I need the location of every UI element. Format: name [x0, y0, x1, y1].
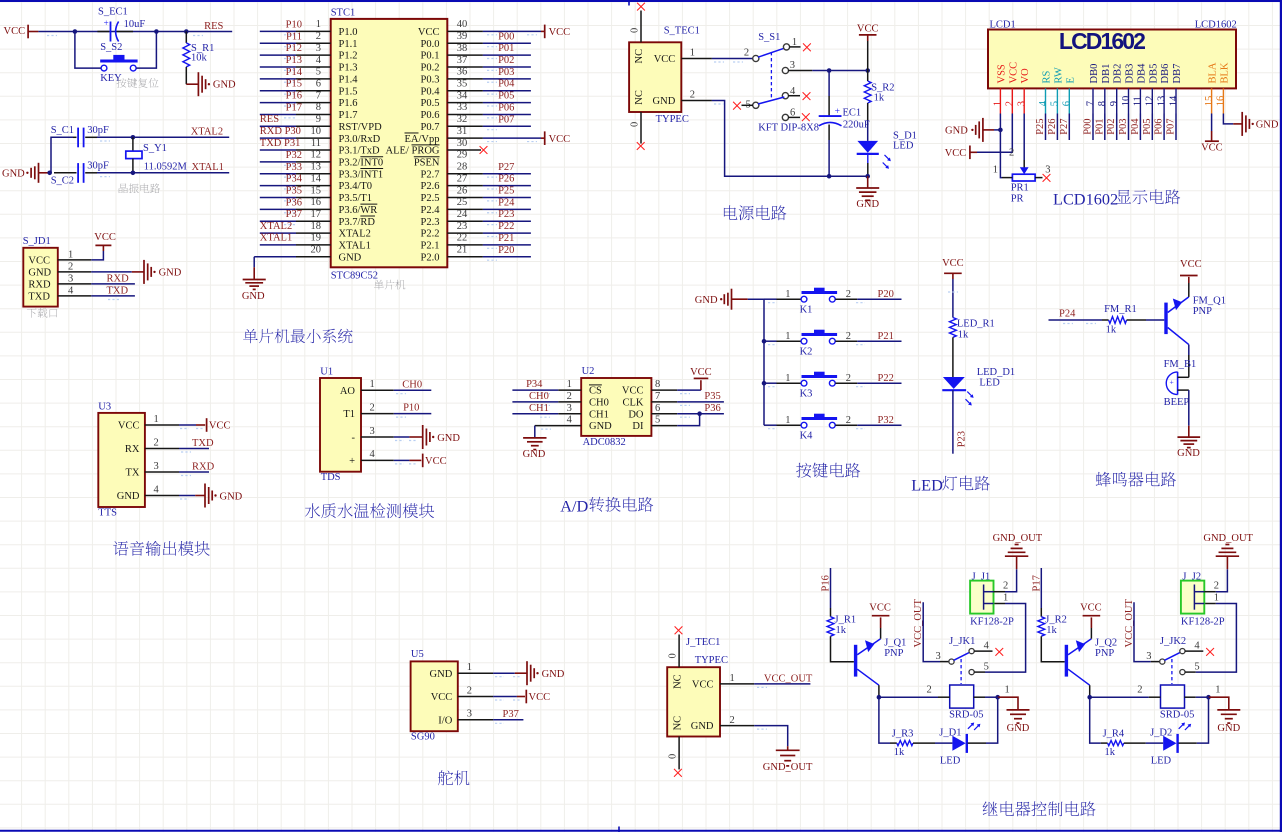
net label P34 (STC1 pin 14)	[284, 174, 303, 189]
earth ground (power circuit)	[856, 176, 879, 210]
svg-text:GND: GND	[1007, 723, 1030, 734]
net label P22	[878, 373, 894, 384]
svg-text:K1: K1	[800, 305, 813, 316]
power ground GND (S_JD1)	[91, 260, 181, 284]
svg-text:32: 32	[457, 114, 468, 125]
svg-text:P22: P22	[498, 221, 514, 232]
pin 18 STC1 wire	[260, 221, 331, 233]
svg-text:P06: P06	[1154, 118, 1165, 134]
junction (LCD VSS/PR1)	[998, 128, 1003, 133]
svg-text:1: 1	[68, 249, 73, 260]
net label RES	[204, 21, 223, 32]
pin 40 STC1 wire to VCC	[447, 19, 570, 38]
svg-text:U1: U1	[320, 366, 333, 377]
svg-text:15: 15	[311, 185, 322, 196]
svg-text:SRD-05: SRD-05	[1160, 709, 1194, 720]
svg-text:VCC_OUT: VCC_OUT	[764, 673, 813, 684]
svg-text:CH0: CH0	[402, 379, 422, 390]
wire LCD pin11	[1139, 114, 1141, 141]
net label VCC_OUT	[764, 673, 813, 684]
svg-text:38: 38	[457, 43, 468, 54]
svg-text:P10: P10	[403, 403, 419, 414]
svg-text:P0.0: P0.0	[421, 39, 440, 50]
svg-text:10: 10	[1121, 96, 1132, 107]
svg-text:1: 1	[467, 662, 472, 673]
push button K3	[764, 372, 865, 400]
section label 舵机	[438, 770, 469, 785]
svg-text:XTAL1: XTAL1	[192, 162, 224, 173]
svg-text:+: +	[349, 456, 355, 467]
svg-text:1: 1	[1005, 685, 1010, 696]
svg-text:RES: RES	[260, 114, 279, 125]
svg-text:P0.2: P0.2	[421, 63, 440, 74]
pin 7 STC1 wire	[260, 90, 331, 102]
svg-text:VCC: VCC	[418, 27, 440, 38]
svg-text:KFT DIP-8X8: KFT DIP-8X8	[758, 122, 819, 133]
wire collector J_Q1	[878, 685, 880, 697]
svg-text:0: 0	[668, 754, 679, 759]
svg-text:P3.7/RD: P3.7/RD	[339, 217, 376, 228]
svg-text:P01: P01	[1094, 118, 1105, 134]
net label P25 (LCD RS)	[1035, 118, 1046, 134]
svg-text:VCC: VCC	[869, 603, 891, 614]
svg-text:S_C1: S_C1	[51, 125, 74, 136]
svg-text:1k: 1k	[1106, 325, 1117, 336]
net label TXD (U3)	[192, 438, 214, 449]
net label VCC_OUT (J_JK2)	[1124, 598, 1135, 647]
svg-text:36: 36	[457, 67, 468, 78]
pin 1 S_S1 no-connect	[789, 43, 811, 51]
svg-text:BLK: BLK	[1219, 62, 1230, 83]
svg-text:P2.5: P2.5	[421, 193, 440, 204]
pin 29 STC1 number	[457, 150, 468, 161]
wire LCD pin16 BLK	[1223, 114, 1233, 124]
svg-text:12: 12	[311, 150, 322, 161]
svg-text:P32: P32	[878, 415, 894, 426]
wire K1 to P20	[835, 298, 901, 300]
svg-text:7: 7	[1085, 101, 1096, 106]
wire J_R3 to J_D1	[913, 742, 952, 744]
potentiometer PR1	[993, 130, 1051, 205]
svg-text:TTS: TTS	[98, 508, 117, 519]
svg-text:P37: P37	[286, 209, 302, 220]
pin 11 STC1 wire	[260, 138, 331, 150]
svg-text:CH1: CH1	[589, 409, 609, 420]
net label P10 (U1)	[403, 403, 419, 414]
wire S_S2 left leg	[75, 32, 101, 69]
pin 4 J_JK1 no-connect	[974, 648, 1003, 656]
wire VCC to RES rail	[38, 32, 232, 36]
comment 晶振电路	[119, 183, 160, 193]
resistor FM_R1	[1104, 304, 1137, 336]
svg-text:GND: GND	[589, 421, 612, 432]
junction (GND bus bottom)	[47, 171, 52, 176]
wire VCC to LED_R1	[948, 279, 958, 318]
svg-text:P2.0: P2.0	[421, 252, 440, 263]
svg-text:7: 7	[316, 90, 321, 101]
svg-text:2: 2	[370, 402, 375, 413]
wire CH0 (U1)	[394, 390, 432, 394]
svg-text:2: 2	[68, 261, 73, 272]
svg-text:1: 1	[993, 164, 998, 175]
wire S_S2 right leg	[136, 32, 156, 69]
svg-text:E: E	[1065, 77, 1076, 83]
wire LCD pin8	[1104, 114, 1106, 141]
svg-text:35: 35	[457, 79, 468, 90]
net label P10 (STC1 pin 1)	[284, 19, 302, 34]
transistor J_Q2 (PNP)	[1065, 638, 1117, 686]
svg-text:13: 13	[1156, 96, 1167, 107]
svg-text:XTAL1: XTAL1	[339, 241, 371, 252]
svg-text:P20: P20	[878, 289, 894, 300]
svg-text:VCC: VCC	[945, 148, 967, 159]
pin 6 S_S1 no-connect	[788, 113, 810, 121]
svg-text:GND: GND	[653, 96, 676, 107]
pin 36 STC1 wire	[447, 67, 531, 83]
svg-text:220uF: 220uF	[843, 119, 870, 130]
svg-text:P01: P01	[498, 43, 514, 54]
svg-text:GND: GND	[945, 126, 968, 137]
svg-text:RXD: RXD	[28, 279, 51, 290]
net label RXD (S_JD1)	[107, 273, 130, 284]
svg-text:P2.1: P2.1	[421, 241, 440, 252]
svg-text:SRD-05: SRD-05	[949, 709, 983, 720]
svg-text:DI: DI	[632, 421, 644, 432]
net label P03 (LCD DB3)	[1118, 118, 1129, 134]
transistor FM_Q1 (PNP)	[1164, 295, 1226, 344]
capacitor EC1	[819, 71, 870, 177]
svg-text:J_Q2: J_Q2	[1095, 638, 1117, 649]
svg-text:GND_OUT: GND_OUT	[763, 762, 813, 773]
capacitor S_C1	[51, 125, 109, 147]
pin 1 J_TEC1	[720, 673, 754, 684]
transistor J_Q1 (PNP)	[854, 638, 906, 686]
svg-text:4: 4	[567, 415, 573, 426]
svg-text:VCC: VCC	[549, 134, 571, 145]
wire P24 to FM_R1	[1049, 320, 1109, 324]
wire LCD pin2 VCC	[977, 114, 1012, 153]
svg-text:31: 31	[457, 126, 468, 137]
junction (DO/DI)	[697, 411, 702, 416]
svg-text:P16: P16	[286, 91, 302, 102]
power port VCC (J_Q2)	[1080, 603, 1102, 639]
svg-text:6: 6	[1062, 101, 1073, 106]
pin 2 coil J_JK2	[1090, 685, 1161, 698]
pin 22 STC1 wire	[447, 233, 531, 249]
svg-text:28: 28	[457, 162, 468, 173]
svg-text:4: 4	[1038, 100, 1049, 106]
svg-text:GND: GND	[1217, 723, 1240, 734]
pin 33 STC1 wire	[447, 102, 531, 118]
svg-text:1k: 1k	[1105, 747, 1116, 758]
net label P01 (LCD DB1)	[1094, 118, 1105, 134]
svg-text:3: 3	[68, 273, 73, 284]
pin 1 STC1 wire	[260, 19, 331, 31]
svg-text:XTAL2: XTAL2	[339, 229, 371, 240]
connector S_JD1 body	[23, 236, 58, 307]
pin 8 STC1 wire	[260, 102, 331, 114]
svg-text:P24: P24	[1059, 309, 1076, 320]
svg-text:P00: P00	[498, 31, 514, 42]
svg-text:2: 2	[846, 415, 851, 426]
svg-text:GND: GND	[523, 449, 546, 460]
section label LED灯电路	[911, 475, 990, 494]
svg-text:P36: P36	[704, 403, 720, 414]
net label P37 (U5)	[503, 709, 519, 720]
section label A/D转换电路	[560, 497, 653, 516]
resistor S_R1	[183, 32, 214, 85]
svg-text:J_D2: J_D2	[1150, 727, 1172, 738]
svg-text:P3.1/TxD: P3.1/TxD	[339, 146, 381, 157]
capacitor S_C2	[51, 161, 109, 187]
svg-text:11: 11	[1133, 96, 1144, 106]
svg-text:1: 1	[316, 19, 321, 30]
section label 语音输出模块	[113, 541, 210, 556]
pin 6 STC1 wire	[260, 79, 331, 91]
svg-text:2: 2	[1009, 148, 1014, 159]
svg-text:XTAL2: XTAL2	[260, 221, 292, 232]
pin 14 STC1 wire	[260, 173, 331, 185]
section label LCD1602显示电路	[1053, 189, 1180, 208]
svg-text:12: 12	[1145, 96, 1156, 107]
net label CH0 (U1)	[402, 379, 422, 390]
pin 15 STC1 wire	[260, 185, 331, 197]
svg-text:P21: P21	[878, 331, 894, 342]
svg-text:P2.4: P2.4	[421, 205, 441, 216]
wire switch T3 to VCC rail	[788, 70, 868, 72]
svg-text:P20: P20	[498, 245, 514, 256]
svg-text:CH1: CH1	[529, 403, 549, 414]
svg-text:4: 4	[68, 285, 74, 296]
svg-text:20: 20	[311, 245, 322, 256]
wire J_D2 to coil right	[1179, 697, 1209, 743]
wire VCC_OUT (J_TEC1)	[754, 684, 810, 688]
pin 2 U5	[458, 685, 493, 696]
push button K2	[764, 330, 865, 358]
svg-text:VCC: VCC	[1080, 603, 1102, 614]
svg-text:SG90: SG90	[411, 732, 435, 743]
pin 0 bottom J_TEC1	[668, 737, 682, 777]
svg-text:P1.6: P1.6	[339, 98, 358, 109]
power ground GND (U5)	[493, 661, 565, 685]
wire J_R3 branch	[879, 697, 897, 743]
svg-text:VO: VO	[1020, 68, 1031, 84]
LED S_D1	[857, 130, 917, 176]
svg-text:P05: P05	[1142, 118, 1153, 134]
wire LCD pin6	[1068, 114, 1070, 141]
power port VCC (buzzer)	[1180, 259, 1202, 297]
svg-text:S_EC1: S_EC1	[98, 7, 128, 18]
svg-text:P04: P04	[498, 79, 515, 90]
wire LED_D1 to P23	[952, 390, 954, 454]
svg-text:VCC: VCC	[118, 421, 140, 432]
resistor J_R2	[1038, 615, 1067, 637]
wire LCD pin7	[1092, 114, 1094, 141]
net label XTAL1	[192, 162, 224, 173]
svg-text:1: 1	[785, 289, 790, 300]
svg-text:1k: 1k	[958, 329, 969, 340]
svg-text:2: 2	[730, 715, 735, 726]
wire J_D1 to coil right	[968, 697, 998, 743]
svg-text:25: 25	[457, 197, 468, 208]
net label P24	[1059, 309, 1076, 320]
net label CH0 (U2)	[529, 391, 549, 402]
svg-text:TYPEC: TYPEC	[695, 655, 728, 666]
svg-text:VCC_OUT: VCC_OUT	[913, 598, 924, 647]
wire J_R1 to J_Q1	[831, 636, 854, 662]
svg-text:3: 3	[316, 43, 321, 54]
net label P26 (LCD RW)	[1047, 118, 1058, 134]
net label P33 (STC1 pin 13)	[284, 162, 302, 177]
svg-text:P3.3/INT1: P3.3/INT1	[339, 169, 384, 180]
wire CH0 (U2)	[512, 402, 558, 406]
svg-text:17: 17	[311, 209, 322, 220]
svg-text:U3: U3	[98, 401, 111, 412]
svg-text:3: 3	[936, 651, 941, 662]
svg-text:DB0: DB0	[1089, 64, 1100, 84]
wire CH1 (U2)	[512, 414, 558, 418]
section label 按键电路	[796, 463, 860, 478]
svg-text:P06: P06	[498, 102, 514, 113]
wire GND leg (U2)	[535, 426, 551, 438]
svg-text:P21: P21	[498, 233, 514, 244]
svg-text:GND: GND	[430, 669, 453, 680]
net label P35 (STC1 pin 15)	[284, 185, 302, 200]
svg-text:TXD: TXD	[107, 285, 129, 296]
net label P00 (LCD DB0)	[1083, 118, 1094, 134]
svg-text:11: 11	[311, 138, 321, 149]
svg-text:3: 3	[154, 461, 159, 472]
net label P25 (STC1 pin 26)	[498, 185, 514, 196]
net label P07 (LCD DB7)	[1166, 118, 1177, 134]
wire pin2 J_J2 to GND_OUT	[1204, 569, 1227, 592]
svg-text:BLA: BLA	[1208, 62, 1219, 83]
svg-text:P12: P12	[286, 43, 302, 54]
svg-text:PR: PR	[1011, 194, 1024, 205]
power ground GND (S_R1)	[186, 72, 236, 96]
svg-text:P23: P23	[956, 431, 967, 447]
svg-text:VCC: VCC	[1201, 142, 1223, 153]
svg-text:P3.6/WR: P3.6/WR	[339, 205, 378, 216]
power ground GND (U3)	[179, 484, 243, 508]
power port VCC (power circuit)	[857, 24, 879, 71]
svg-text:1: 1	[154, 414, 159, 425]
pin 4 STC1 wire	[260, 55, 331, 67]
wire LCD pin15 BLA	[1211, 114, 1213, 132]
svg-text:LED_D1: LED_D1	[977, 367, 1016, 378]
svg-text:GND: GND	[1256, 120, 1279, 131]
svg-text:18: 18	[311, 221, 322, 232]
power port VCC (J_Q1)	[869, 603, 891, 639]
svg-text:AO: AO	[340, 386, 356, 397]
section label 电源电路	[724, 205, 786, 220]
pin 35 STC1 wire	[447, 79, 531, 95]
wire P37 (U5)	[493, 720, 523, 724]
earth ground GND_OUT (J_TEC1)	[763, 746, 813, 773]
svg-text:RX: RX	[125, 444, 140, 455]
svg-text:CH0: CH0	[529, 391, 549, 402]
junction (VCC/S_S2 left)	[73, 29, 78, 34]
svg-text:RES: RES	[204, 21, 223, 32]
svg-text:P34: P34	[526, 379, 543, 390]
net label XTAL2 (STC1)	[260, 221, 292, 232]
resistor S_R2	[864, 71, 894, 141]
earth ground (J_JK2)	[1209, 697, 1241, 734]
svg-text:1k: 1k	[836, 625, 847, 636]
svg-text:-: -	[352, 433, 356, 444]
svg-text:P10: P10	[286, 19, 302, 30]
wire P35 (U2)	[677, 402, 724, 406]
pin 30 STC1 wire (no ERC)	[447, 138, 487, 154]
svg-text:VCC: VCC	[431, 692, 453, 703]
power port VCC (LCD)	[945, 146, 977, 160]
svg-text:LED: LED	[1151, 755, 1172, 766]
svg-text:K4: K4	[800, 431, 814, 442]
svg-text:P2.7: P2.7	[421, 169, 440, 180]
net label P04 (LCD DB4)	[1130, 118, 1141, 135]
pin 1 U1	[361, 379, 394, 390]
svg-text:P1.5: P1.5	[339, 86, 358, 97]
wire LCD pin9	[1116, 114, 1118, 141]
svg-text:LED: LED	[940, 755, 961, 766]
svg-text:16: 16	[1216, 96, 1227, 107]
pin 1 U2	[558, 379, 581, 390]
svg-text:P32: P32	[286, 150, 302, 161]
net label P00 (STC1 pin 39)	[498, 31, 514, 42]
junction (GND power circuit)	[865, 174, 870, 179]
net label RXD P30 (STC1)	[260, 126, 301, 137]
pin 6 U2	[651, 403, 677, 414]
svg-text:ADC0832: ADC0832	[583, 437, 626, 448]
pin 19 STC1 wire	[260, 233, 331, 245]
svg-text:4: 4	[316, 55, 322, 66]
connector J_J2 body	[1181, 571, 1225, 627]
svg-text:P2.3: P2.3	[421, 217, 440, 228]
svg-text:2: 2	[846, 331, 851, 342]
crystal S_Y1	[126, 137, 188, 173]
svg-text:PNP: PNP	[1193, 306, 1212, 317]
wire TXD (U3)	[179, 449, 209, 453]
net label P16 (relay)	[821, 575, 832, 591]
net label P22 (STC1 pin 23)	[498, 221, 514, 232]
resistor LED_R1	[950, 318, 995, 341]
svg-text:VCC: VCC	[622, 386, 644, 397]
LED J_D2	[1150, 723, 1191, 767]
svg-text:GND: GND	[242, 291, 265, 302]
svg-text:5: 5	[655, 415, 660, 426]
switch S_S1	[744, 32, 819, 134]
svg-text:VCC: VCC	[692, 679, 714, 690]
svg-text:P04: P04	[1130, 118, 1141, 135]
pin 28 STC1 wire	[447, 162, 531, 178]
svg-text:GND: GND	[117, 491, 140, 502]
svg-text:0: 0	[668, 653, 679, 658]
push button K1	[764, 288, 865, 316]
pin 3 U2	[558, 403, 581, 414]
svg-text:P2.2: P2.2	[421, 229, 440, 240]
svg-text:GND: GND	[542, 669, 565, 680]
svg-text:27: 27	[457, 173, 468, 184]
pin 2 J_TEC1	[720, 715, 754, 726]
power port VCC (reset)	[4, 25, 39, 39]
pin 7 U2	[651, 391, 677, 402]
svg-text:3: 3	[370, 426, 375, 437]
net label XTAL2	[191, 127, 223, 138]
net label P34 (U2)	[526, 379, 543, 390]
svg-text:P3.5/T1: P3.5/T1	[339, 193, 373, 204]
wire FM_R1 to FM_Q1	[1127, 319, 1165, 321]
pin 1 coil J_JK1	[974, 685, 1010, 698]
